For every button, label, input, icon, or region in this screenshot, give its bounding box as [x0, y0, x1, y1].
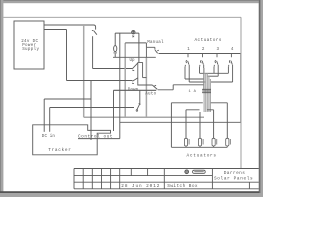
svg-text:Manual: Manual	[147, 40, 164, 45]
actuator bus stubs	[188, 54, 231, 58]
svg-text:1: 1	[187, 48, 190, 52]
svg-text:3: 3	[217, 48, 220, 52]
wire down left	[66, 30, 68, 81]
tb row line 1	[74, 168, 259, 170]
svg-text:Control out: Control out	[78, 135, 113, 140]
wire to auto	[138, 84, 153, 85]
cable bundle grey	[204, 68, 210, 112]
paper border shading left	[0, 0, 3, 197]
switch S5 auto	[152, 85, 157, 89]
wire PSU pin1	[44, 25, 96, 30]
wire fan m3	[207, 110, 214, 139]
wire PSU pin2	[44, 29, 67, 31]
switch A3	[214, 60, 218, 66]
paper border shading top	[0, 0, 263, 3]
wire act h3	[189, 81, 205, 83]
frame right edge	[240, 17, 242, 168]
wire DC in pin2	[50, 108, 134, 132]
wire fan left loop	[171, 103, 202, 148]
bundle label marks	[202, 89, 211, 92]
paper border shading right	[259, 0, 263, 197]
title block	[74, 169, 259, 189]
switch A1	[185, 60, 189, 66]
lamp L1	[132, 31, 135, 34]
paper border shading bottom	[0, 193, 263, 197]
fuse F1	[114, 46, 117, 52]
svg-text:Auto: Auto	[145, 93, 156, 97]
net grey DC- vertical	[83, 25, 85, 117]
wire auto out	[158, 85, 204, 90]
up-down contact box	[138, 62, 143, 84]
svg-text:Supply: Supply	[22, 47, 39, 52]
svg-text:DC in: DC in	[42, 134, 56, 139]
actuator switch terminals	[185, 65, 233, 90]
switch S2 manual	[146, 47, 158, 57]
tb main verticals	[164, 169, 249, 189]
svg-text:Tracker: Tracker	[48, 148, 71, 153]
tb top row extra verticals	[131, 169, 147, 176]
svg-text:Up: Up	[130, 59, 136, 63]
net grey auto vertical	[145, 57, 147, 117]
net grey DC- horizontal	[84, 116, 204, 118]
wire bottom long	[120, 121, 241, 123]
svg-text:4: 4	[231, 48, 234, 52]
motor M2	[198, 138, 201, 146]
frame top edge	[3, 16, 241, 18]
motor stubs	[186, 146, 227, 147]
switch S4 down lever	[132, 78, 138, 84]
wire box stub right	[143, 77, 147, 79]
switch S6 limit	[137, 104, 141, 110]
tb row line 2	[74, 175, 212, 177]
svg-text:28 Jun 2012: 28 Jun 2012	[121, 184, 160, 189]
wire act h2	[185, 78, 204, 80]
wire thick lower	[114, 89, 157, 91]
wire to Up lever	[93, 68, 133, 70]
wire act h4	[207, 75, 218, 77]
title block text	[121, 171, 253, 189]
main bus line right	[159, 53, 241, 55]
wire act h1	[200, 72, 229, 74]
switch S3 up lever	[132, 63, 138, 71]
wire lamp to manual	[125, 43, 146, 47]
logo cartridge	[193, 170, 206, 173]
wire bottom bus	[171, 146, 227, 148]
wire fan m2	[199, 112, 201, 138]
wire S1 down	[92, 36, 94, 68]
wire fan m4	[211, 103, 228, 139]
wire bus right down	[240, 54, 242, 123]
wire act h5	[211, 81, 233, 83]
wire lamp branch	[115, 32, 139, 34]
motor M1	[184, 138, 187, 146]
motor labels micro	[189, 139, 231, 145]
motor M4	[226, 138, 229, 146]
svg-text:Switch Box: Switch Box	[167, 184, 198, 189]
svg-text:1 A: 1 A	[189, 90, 197, 94]
wire lamp down to contact box	[138, 33, 140, 62]
svg-text:Solar Panels: Solar Panels	[214, 177, 253, 182]
switch S1 power	[92, 31, 97, 35]
wire junction down to DC in	[44, 81, 91, 141]
wire fuse vertical	[114, 33, 116, 57]
wire to limit switch	[139, 90, 141, 103]
tb row line 3	[74, 181, 259, 183]
wire limit down	[113, 90, 115, 131]
svg-text:2: 2	[202, 48, 205, 52]
motor M3	[212, 138, 215, 146]
power supply box U1	[14, 21, 44, 69]
wire DC in pin1	[43, 99, 45, 132]
wire control out stub	[78, 138, 120, 140]
tb bottom line	[74, 188, 259, 190]
wire control vertical	[119, 33, 121, 138]
svg-text:Actuators: Actuators	[195, 38, 222, 43]
wire to Down lever	[67, 80, 133, 82]
tb grid verticals	[74, 169, 120, 189]
logo circle	[185, 170, 189, 174]
svg-text:Actuators: Actuators	[187, 153, 217, 158]
main line left	[113, 56, 156, 58]
tracker box U2	[33, 125, 111, 155]
wire fan m1	[186, 110, 200, 139]
svg-text:Darrens: Darrens	[224, 171, 246, 176]
net grey control vertical	[124, 43, 126, 117]
switch A4	[229, 60, 233, 66]
switch A2	[200, 60, 204, 66]
svg-text:Down: Down	[128, 89, 139, 93]
